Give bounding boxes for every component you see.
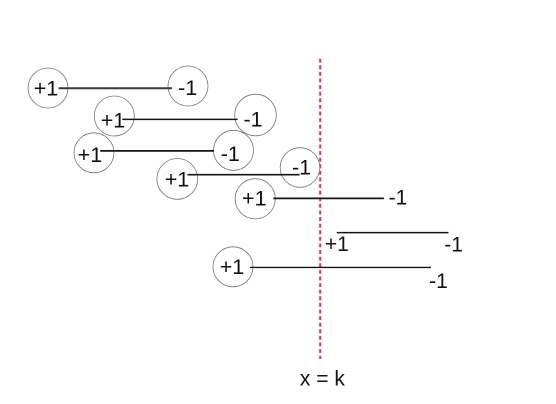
wire pair 7: [250, 266, 431, 268]
svg-text:+1: +1: [34, 77, 59, 101]
svg-text:-1: -1: [292, 155, 311, 179]
wire pair 1: [59, 87, 173, 89]
node pair1 +1 circle: [28, 68, 68, 108]
svg-text:+1: +1: [165, 167, 190, 191]
svg-text:-1: -1: [444, 234, 463, 257]
wire pair 2: [122, 118, 237, 120]
wire pair 3: [100, 150, 214, 152]
node pair4 +1 circle: [157, 159, 198, 200]
svg-text:-1: -1: [389, 187, 408, 210]
svg-text:+1: +1: [325, 233, 349, 256]
node pair2 +1 circle: [94, 96, 134, 136]
svg-text:+1: +1: [242, 186, 267, 210]
node pair2 -1 circle: [235, 94, 277, 136]
svg-text:-1: -1: [221, 142, 240, 166]
wire pair 6: [337, 232, 449, 234]
node pair4 -1 circle: [280, 148, 320, 188]
svg-text:+1: +1: [78, 143, 103, 167]
node pair3 +1 circle: [74, 133, 114, 173]
node pair7 +1 circle: [213, 247, 253, 287]
svg-text:-1: -1: [429, 270, 448, 293]
node pair1 -1 circle: [168, 66, 208, 106]
node pair3 -1 circle: [214, 130, 254, 170]
wire pair 4: [188, 174, 300, 176]
boundary line x = k (red dashed vertical): [319, 59, 321, 359]
svg-text:-1: -1: [243, 107, 262, 131]
svg-text:+1: +1: [220, 255, 245, 279]
svg-text:x = k: x = k: [300, 368, 345, 391]
svg-text:-1: -1: [178, 76, 197, 100]
svg-text:+1: +1: [101, 109, 126, 133]
node pair5 +1 circle: [235, 179, 275, 219]
wire pair 5: [273, 197, 384, 199]
